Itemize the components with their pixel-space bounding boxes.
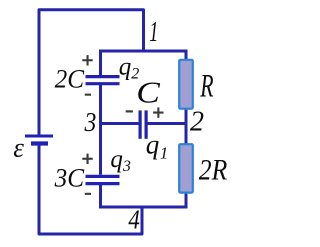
svg-text:2R: 2R — [199, 154, 227, 187]
svg-text:2: 2 — [190, 107, 204, 138]
svg-text:3C: 3C — [54, 163, 85, 192]
svg-text:q3: q3 — [110, 146, 130, 175]
svg-text:C: C — [136, 75, 160, 110]
svg-text:ε: ε — [13, 133, 24, 163]
svg-text:4: 4 — [128, 206, 139, 235]
svg-text:q2: q2 — [119, 54, 140, 83]
svg-text:2C: 2C — [55, 64, 85, 93]
svg-text:R: R — [200, 68, 214, 105]
svg-text:1: 1 — [149, 17, 158, 48]
svg-text:3: 3 — [84, 106, 97, 137]
svg-text:q1: q1 — [146, 130, 169, 163]
